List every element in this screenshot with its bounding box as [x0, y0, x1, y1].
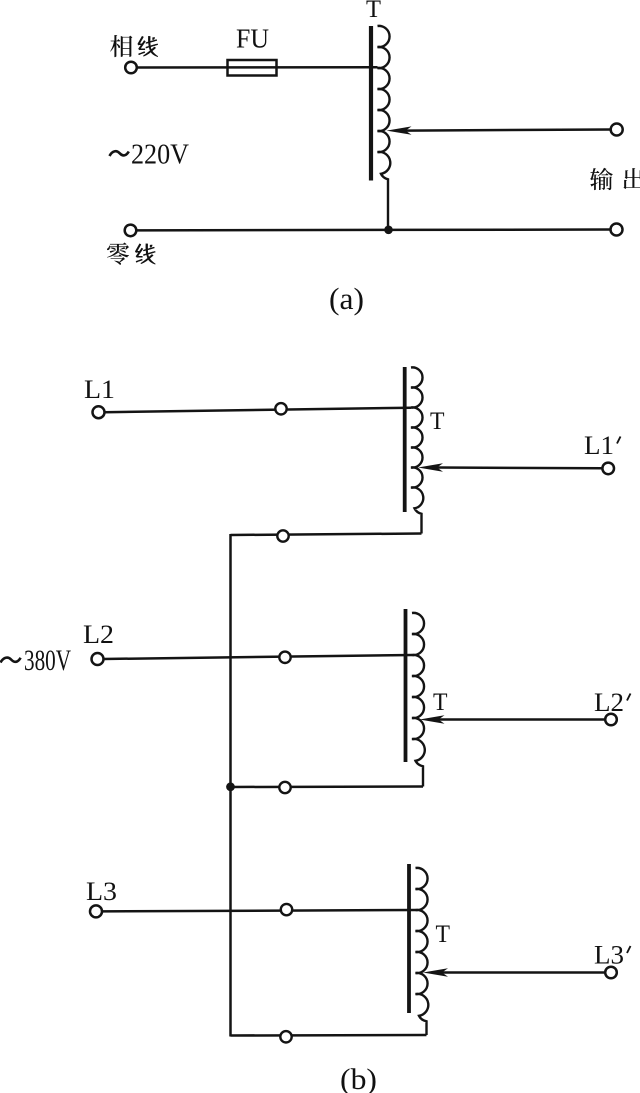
label 线 (line)	[138, 36, 158, 56]
prime tick of L2′	[627, 694, 631, 701]
wire: L2 input to transformer winding	[103, 655, 412, 659]
wire: neutral bus vertical	[229, 534, 232, 1037]
connector circle on T3 return wire	[280, 1031, 291, 1042]
label ~220V tilde	[110, 151, 129, 156]
wire: wiper to output live terminal	[406, 130, 611, 131]
svg-text:L2: L2	[594, 688, 624, 717]
terminal: L1′ output	[602, 463, 614, 475]
terminal: output live	[611, 124, 623, 136]
transformer T1 core bar	[403, 367, 407, 512]
label 零 (neutral)	[107, 242, 129, 264]
fuse FU	[228, 60, 277, 76]
connector circle on L3 wire	[281, 904, 292, 915]
svg-text:L3: L3	[86, 877, 117, 906]
wiper arrow on winding T3	[423, 968, 448, 976]
svg-text:(a): (a)	[329, 281, 364, 316]
svg-text:L2: L2	[83, 620, 114, 649]
wire: wiper to L2′ terminal	[439, 718, 606, 721]
terminal: L3 input	[90, 905, 102, 917]
svg-text:L3: L3	[594, 941, 624, 970]
svg-text:380V: 380V	[24, 644, 71, 677]
transformer T2 core bar	[404, 609, 408, 762]
wire: T3 winding end to neutral bus	[231, 1034, 427, 1037]
terminal: L2 input	[92, 653, 104, 665]
connector circle on T1 return wire	[277, 530, 288, 541]
terminal: L2′ output	[605, 714, 617, 726]
wire: neutral line	[136, 228, 611, 231]
wire: wiper to L3′ terminal	[442, 971, 605, 974]
junction: winding end on neutral wire	[384, 226, 393, 235]
transformer T core bar	[369, 26, 373, 181]
transformer T3 winding	[416, 868, 429, 1035]
terminal: L1 input	[93, 406, 105, 418]
connector circle on L2 wire	[279, 652, 290, 663]
terminal: output neutral	[611, 224, 623, 236]
wire: wiper to L1′ terminal	[437, 466, 602, 469]
junction: T2 return on neutral bus	[226, 782, 235, 791]
wire: T2 winding end to neutral bus	[231, 785, 424, 788]
transformer T1 winding	[411, 367, 423, 533]
label ~380V tilde	[1, 658, 21, 663]
terminal: phase input	[125, 62, 137, 74]
prime tick of L3′	[627, 946, 631, 953]
label 相 (phase)	[110, 35, 132, 57]
svg-text:L1: L1	[584, 431, 614, 460]
wiper arrow on winding T2	[420, 715, 445, 723]
wire: L3 input to transformer winding	[102, 910, 416, 911]
connector circle on L1 wire	[275, 403, 286, 414]
transformer T winding	[378, 26, 391, 230]
svg-text:T: T	[436, 921, 451, 948]
svg-text:FU: FU	[236, 24, 269, 54]
connector circle on T2 return wire	[279, 782, 290, 793]
terminal: neutral input	[125, 225, 137, 237]
svg-text:T: T	[433, 689, 448, 716]
label 线 (line) 2	[135, 244, 155, 264]
svg-text:T: T	[430, 408, 445, 435]
wire: phase input through fuse FU to transformer T winding	[136, 66, 378, 69]
transformer T3 core bar	[407, 864, 411, 1013]
transformer T2 winding	[412, 613, 425, 787]
wire: L1 input to transformer winding	[104, 408, 411, 413]
wiper arrow on winding T1	[418, 463, 443, 471]
svg-text:T: T	[366, 0, 381, 23]
wire: T1 winding end to neutral bus	[231, 534, 422, 536]
svg-text:L1: L1	[84, 375, 115, 404]
svg-text:220V: 220V	[131, 139, 189, 171]
wiper arrow on winding T	[387, 126, 412, 134]
label 出 (-put)	[623, 168, 640, 190]
label 输 (out-)	[590, 168, 613, 190]
prime tick of L1′	[617, 437, 621, 444]
svg-text:(b): (b)	[340, 1063, 377, 1093]
terminal: L3′ output	[605, 967, 617, 979]
